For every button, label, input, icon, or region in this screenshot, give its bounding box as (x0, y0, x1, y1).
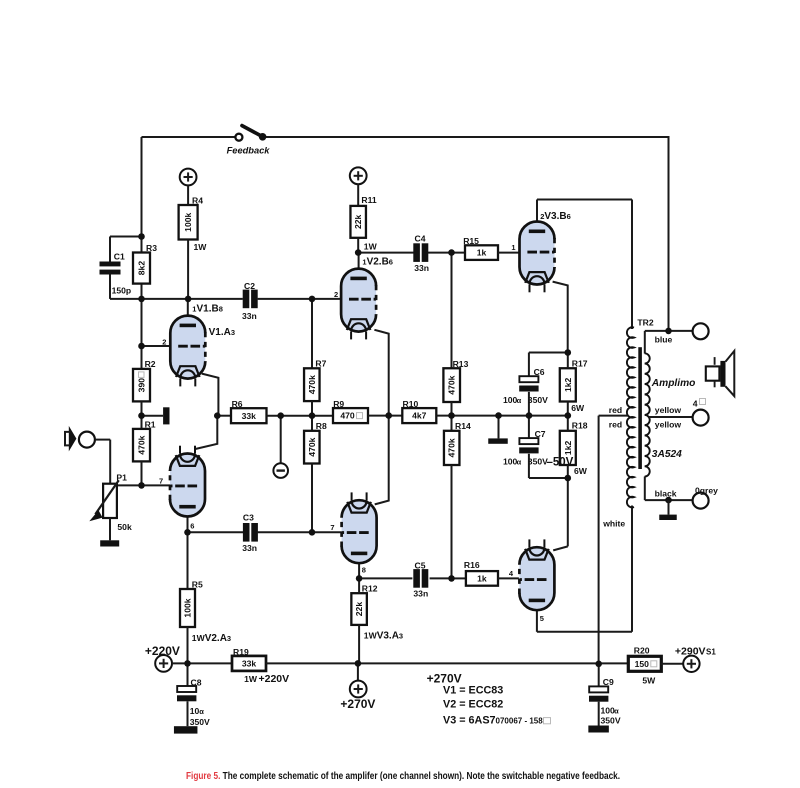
svg-text:22k: 22k (353, 214, 363, 229)
svg-text:1V2.B6: 1V2.B6 (362, 256, 393, 267)
svg-text:C6: C6 (534, 367, 545, 377)
svg-text:S1: S1 (706, 647, 716, 656)
svg-text:470k: 470k (447, 375, 457, 394)
svg-text:350V: 350V (528, 395, 548, 405)
svg-text:R2: R2 (145, 359, 156, 369)
svg-text:C5: C5 (415, 561, 426, 571)
svg-text:470k: 470k (307, 437, 317, 456)
svg-text:33k: 33k (242, 411, 257, 421)
svg-text:470: 470 (340, 411, 355, 421)
svg-text:C7: C7 (535, 429, 546, 439)
svg-text:R18: R18 (572, 421, 588, 431)
svg-text:+270V: +270V (427, 671, 462, 685)
svg-text:3A524: 3A524 (652, 449, 682, 460)
svg-text:1: 1 (511, 243, 515, 252)
svg-text:4k7: 4k7 (412, 411, 427, 421)
svg-text:R3: R3 (146, 243, 157, 253)
svg-text:R10: R10 (403, 399, 419, 409)
svg-text:350V: 350V (190, 717, 210, 727)
svg-text:V1.A3: V1.A3 (209, 327, 235, 338)
svg-text:yellow: yellow (655, 405, 682, 415)
svg-text:100: 100 (503, 457, 518, 467)
svg-text:470k: 470k (447, 438, 457, 457)
svg-text:100: 100 (601, 706, 616, 716)
svg-text:1W: 1W (244, 674, 258, 684)
svg-text:R5: R5 (192, 580, 203, 590)
svg-text:red: red (609, 419, 622, 429)
svg-text:C3: C3 (243, 512, 254, 522)
svg-text:470k: 470k (307, 375, 317, 394)
svg-text:α: α (199, 707, 204, 716)
svg-text:TR2: TR2 (637, 318, 653, 328)
svg-text:1WV2.A3: 1WV2.A3 (192, 633, 231, 644)
svg-text:7: 7 (159, 477, 163, 486)
svg-text:8k2: 8k2 (137, 261, 147, 276)
svg-text:1W: 1W (194, 242, 208, 252)
svg-text:R15: R15 (463, 236, 479, 246)
svg-text:100k: 100k (183, 212, 193, 231)
svg-text:0grey: 0grey (695, 485, 718, 495)
svg-text:R4: R4 (192, 196, 203, 206)
svg-text:C4: C4 (415, 233, 426, 243)
svg-text:R20: R20 (634, 645, 650, 655)
svg-text:1V1.B8: 1V1.B8 (192, 303, 223, 314)
svg-text:6W: 6W (571, 403, 585, 413)
svg-text:α: α (614, 707, 619, 716)
svg-text:R12: R12 (362, 584, 378, 594)
svg-text:V3 = 6AS7070067 - 158: V3 = 6AS7070067 - 158 (443, 715, 543, 727)
svg-text:black: black (655, 488, 677, 498)
svg-text:470k: 470k (137, 435, 147, 454)
svg-text:33n: 33n (242, 543, 257, 553)
svg-text:+220V: +220V (259, 673, 290, 685)
svg-text:R16: R16 (464, 560, 480, 570)
svg-text:1k2: 1k2 (563, 441, 573, 456)
svg-text:–50V: –50V (547, 457, 574, 469)
svg-text:R6: R6 (232, 399, 243, 409)
svg-text:7: 7 (330, 523, 334, 532)
svg-text:P1: P1 (116, 473, 127, 483)
svg-text:6: 6 (190, 522, 194, 531)
svg-text:Feedback: Feedback (227, 145, 271, 155)
svg-text:R11: R11 (361, 195, 377, 205)
svg-text:5: 5 (540, 614, 544, 623)
svg-text:R9: R9 (333, 399, 344, 409)
svg-text:150p: 150p (112, 286, 132, 296)
svg-text:350V: 350V (528, 457, 548, 467)
svg-text:+270V: +270V (340, 697, 375, 711)
svg-text:R7: R7 (315, 359, 326, 369)
svg-text:6W: 6W (574, 466, 588, 476)
svg-text:white: white (602, 518, 625, 528)
svg-text:+290V: +290V (675, 645, 706, 657)
svg-text:V1 = ECC83: V1 = ECC83 (443, 684, 503, 696)
svg-text:390: 390 (137, 378, 147, 393)
svg-text:Amplimo: Amplimo (651, 378, 696, 389)
svg-text:100: 100 (503, 395, 518, 405)
svg-text:red: red (609, 405, 622, 415)
svg-text:1W: 1W (364, 241, 378, 251)
svg-text:C2: C2 (244, 281, 255, 291)
svg-text:R19: R19 (233, 647, 249, 657)
svg-text:yellow: yellow (655, 420, 682, 430)
svg-text:50k: 50k (117, 522, 132, 532)
svg-text:33n: 33n (242, 311, 257, 321)
svg-text:R13: R13 (453, 359, 469, 369)
svg-text:2V3.B6: 2V3.B6 (540, 211, 571, 222)
svg-text:2: 2 (334, 290, 338, 299)
svg-text:100k: 100k (183, 598, 193, 617)
svg-text:2: 2 (162, 337, 166, 346)
svg-text:R17: R17 (572, 359, 588, 369)
svg-text:4: 4 (693, 398, 698, 408)
svg-text:1k: 1k (477, 248, 487, 258)
svg-text:5W: 5W (642, 675, 656, 685)
svg-text:C9: C9 (603, 677, 614, 687)
svg-text:33n: 33n (414, 263, 429, 273)
svg-text:α: α (517, 458, 522, 467)
svg-text:1WV3.A3: 1WV3.A3 (364, 630, 403, 641)
svg-text:33k: 33k (242, 659, 257, 669)
svg-text:α: α (517, 396, 522, 405)
svg-text:+220V: +220V (145, 644, 180, 658)
svg-text:C8: C8 (191, 677, 202, 687)
svg-text:1k2: 1k2 (563, 377, 573, 392)
svg-text:150: 150 (635, 659, 650, 669)
svg-text:R1: R1 (145, 420, 156, 430)
svg-text:8: 8 (362, 566, 366, 575)
svg-text:1k: 1k (477, 574, 487, 584)
svg-text:V2 = ECC82: V2 = ECC82 (443, 698, 503, 710)
svg-text:22k: 22k (354, 602, 364, 617)
svg-text:350V: 350V (601, 715, 621, 725)
svg-text:33n: 33n (413, 589, 428, 599)
svg-text:R14: R14 (455, 421, 471, 431)
svg-text:C1: C1 (114, 251, 125, 261)
svg-text:Figure 5. The complete schemat: Figure 5. The complete schematic of the … (186, 770, 620, 781)
svg-text:R8: R8 (316, 421, 327, 431)
svg-text:10: 10 (190, 706, 200, 716)
svg-text:blue: blue (655, 335, 673, 345)
